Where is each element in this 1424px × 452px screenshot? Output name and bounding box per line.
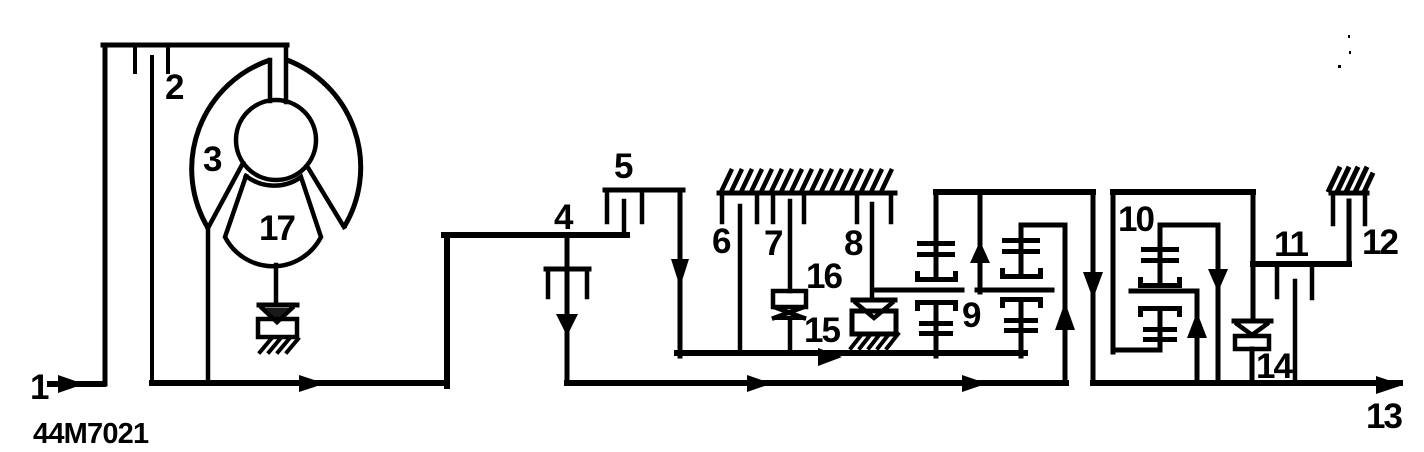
svg-text:1: 1 (30, 368, 49, 407)
svg-text:5: 5 (614, 147, 633, 186)
svg-text:16: 16 (806, 257, 842, 296)
svg-text:9: 9 (962, 296, 981, 335)
svg-text:4: 4 (554, 198, 574, 237)
svg-text:15: 15 (804, 311, 840, 350)
svg-text:10: 10 (1118, 200, 1154, 239)
svg-text:17: 17 (259, 209, 294, 248)
svg-text:3: 3 (203, 140, 222, 179)
svg-text:44M7021: 44M7021 (33, 418, 149, 450)
svg-text:13: 13 (1366, 397, 1402, 436)
svg-text:6: 6 (712, 222, 731, 261)
svg-text:14: 14 (1256, 347, 1293, 386)
svg-text:12: 12 (1362, 223, 1398, 262)
svg-text:2: 2 (165, 68, 184, 107)
svg-text:11: 11 (1274, 225, 1309, 264)
svg-text:7: 7 (764, 224, 783, 263)
svg-text:8: 8 (844, 224, 863, 263)
